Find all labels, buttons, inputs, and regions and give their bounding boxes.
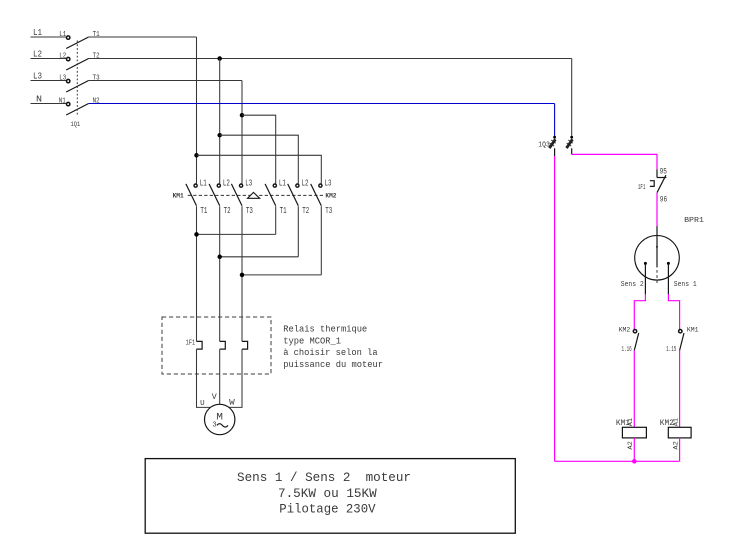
wire KM2 T3 down	[320, 206, 322, 275]
svg-text:KM1: KM1	[687, 326, 699, 333]
svg-text:W: W	[229, 400, 235, 408]
wire KM1 T1 down	[196, 206, 198, 341]
svg-text:L3: L3	[245, 178, 252, 188]
breaker 1Q1 pole 4 blade	[66, 104, 88, 116]
coil KM1	[622, 427, 646, 438]
svg-text:L1: L1	[200, 178, 207, 188]
wire coil KM2 to bus (magenta)	[679, 438, 681, 461]
annotation relais thermique	[283, 324, 383, 370]
KM2 contact pole L2	[288, 178, 310, 215]
wire control phase (magenta)	[572, 154, 657, 169]
svg-text:KM2: KM2	[325, 192, 336, 199]
breaker 1Q1 pole 1 blade	[66, 37, 88, 49]
thermal contact 1F1 95-96	[650, 169, 667, 192]
thermal relay 1F1 dashed box	[162, 317, 271, 374]
svg-text:A2: A2	[627, 441, 634, 449]
svg-text:L2: L2	[223, 178, 230, 188]
wire L3 input	[31, 80, 67, 82]
svg-text:1Q3: 1Q3	[538, 141, 550, 149]
svg-text:Sens 1: Sens 1	[674, 281, 697, 289]
wire Sens 1 branch	[668, 263, 679, 329]
svg-text:L2: L2	[59, 52, 66, 60]
svg-text:1F1: 1F1	[638, 184, 646, 192]
junction T2 branch	[217, 56, 222, 61]
svg-text:A1: A1	[672, 418, 679, 426]
svg-text:1.16: 1.16	[622, 346, 632, 354]
KM2 contact pole L3	[311, 178, 333, 215]
svg-text:L1: L1	[279, 178, 286, 188]
breaker 1Q1 pole 3 blade	[66, 81, 88, 93]
breaker 1Q3 pole phase blade (hatched)	[567, 139, 573, 148]
KM1 contact pole L2	[209, 178, 231, 215]
svg-text:T3: T3	[325, 206, 332, 216]
svg-text:U: U	[200, 400, 205, 408]
svg-text:N2: N2	[93, 97, 100, 105]
breaker 1Q1 pole 4 terminal N1	[59, 97, 70, 105]
KM2 contact pole L1	[265, 178, 287, 215]
breaker 1Q1 pole 2 blade	[66, 59, 88, 71]
wire T1 drop	[196, 37, 198, 184]
wire join T1 outputs	[197, 233, 276, 235]
junction T2 join	[217, 255, 222, 260]
motor M1 circle	[205, 404, 235, 434]
svg-text:L1: L1	[33, 27, 42, 38]
wire join T3 outputs	[242, 274, 321, 276]
svg-text:96: 96	[660, 195, 667, 205]
wire T3 drop	[241, 81, 243, 184]
wire KM1 T3 down	[241, 206, 243, 341]
selector contact Sens 2	[644, 262, 647, 265]
svg-text:T2: T2	[302, 206, 309, 216]
wire KM1 T2 down	[219, 206, 221, 341]
svg-text:type MCOR_1: type MCOR_1	[283, 335, 341, 346]
selector contact Sens 1	[667, 262, 670, 265]
thermal element phase 3	[242, 341, 248, 349]
svg-text:M: M	[216, 413, 223, 424]
svg-text:A2: A2	[672, 441, 679, 449]
aux contact KM2 (interlock)	[633, 330, 638, 351]
wire neutral below 1Q3	[554, 148, 556, 156]
wire T2 control drop	[571, 59, 573, 136]
junction T1 branch	[194, 153, 199, 158]
breaker 1Q3 pole phase terminal	[570, 136, 573, 139]
svg-text:L3: L3	[325, 178, 332, 188]
svg-text:Pilotage 230V: Pilotage 230V	[279, 501, 375, 516]
breaker 1Q1 pole 3 terminal L3	[59, 74, 70, 82]
svg-text:T1: T1	[93, 31, 100, 39]
wire L2 input	[31, 58, 67, 60]
svg-text:BPR1: BPR1	[684, 217, 704, 225]
motor tilde	[217, 424, 228, 427]
svg-text:KM1: KM1	[173, 192, 184, 199]
svg-text:N: N	[36, 93, 42, 104]
junction T2 branch 2	[217, 133, 222, 138]
wire T3 branch to KM2 L1	[242, 115, 276, 183]
wire motor W	[229, 349, 242, 407]
wire motor U	[197, 349, 211, 407]
svg-text:L3: L3	[59, 74, 66, 82]
svg-text:Relais thermique: Relais thermique	[283, 324, 367, 335]
svg-text:Sens 2: Sens 2	[621, 281, 644, 289]
title box	[145, 459, 515, 534]
svg-text:T1: T1	[280, 206, 287, 216]
svg-text:N1: N1	[59, 97, 66, 105]
KM1 contact pole L1	[186, 178, 208, 215]
svg-text:Sens 1 / Sens 2 moteur: Sens 1 / Sens 2 moteur	[237, 470, 411, 485]
junction T3 branch	[240, 113, 245, 118]
wire N2 control drop (blue)	[554, 104, 556, 136]
wire KM1 aux to coil KM2 (magenta)	[679, 350, 681, 427]
svg-text:L2: L2	[302, 178, 309, 188]
breaker 1Q1 pole 2 terminal L2	[59, 52, 70, 60]
breaker 1Q1 pole 1 terminal L1	[59, 31, 70, 39]
svg-text:V: V	[212, 392, 218, 402]
KM1 contact pole L3	[231, 178, 253, 215]
svg-text:1.15: 1.15	[666, 346, 676, 354]
wire N input	[31, 103, 67, 105]
wire T1 branch to KM2 L3	[197, 155, 322, 183]
wire T1 horizontal	[89, 36, 197, 38]
wire join T2 outputs	[220, 256, 299, 258]
wire neutral bus (magenta)	[555, 460, 680, 462]
thermal element phase 1	[197, 341, 203, 349]
svg-text:A1: A1	[627, 418, 634, 426]
svg-text:7.5KW ou 15KW: 7.5KW ou 15KW	[278, 486, 377, 501]
breaker 1Q3 pole N terminal	[553, 136, 556, 139]
wire KM2 T2 down	[297, 206, 299, 257]
selector switch BPR1 circle	[635, 235, 680, 280]
wire KM2 T1 down	[275, 206, 277, 234]
junction T3 join	[240, 273, 245, 278]
wire T2 horizontal	[89, 58, 572, 60]
wire KM2 aux to coil KM1 (magenta)	[633, 350, 635, 427]
svg-text:T3: T3	[246, 206, 253, 216]
wire control neutral (magenta)	[554, 156, 556, 461]
wire L1 input	[31, 36, 67, 38]
wire Sens 2 branch	[634, 263, 645, 329]
svg-text:T2: T2	[93, 52, 100, 60]
junction bus (magenta)	[632, 459, 637, 464]
svg-text:1Q1: 1Q1	[71, 121, 81, 129]
svg-text:3: 3	[212, 421, 216, 429]
wire 96 to selector (magenta)	[656, 193, 658, 226]
wire T3 horizontal	[89, 80, 242, 82]
svg-text:L3: L3	[33, 70, 42, 81]
aux contact KM1 (interlock)	[679, 330, 684, 351]
coil KM2	[668, 427, 691, 438]
wire N2 horizontal (blue)	[89, 103, 555, 105]
thermal element phase 2	[220, 341, 226, 349]
wire T2 drop	[219, 59, 221, 184]
breaker 1Q1 mechanical link (dashed)	[76, 41, 78, 117]
breaker 1Q3 pole N blade (hatched)	[549, 139, 555, 148]
svg-text:T1: T1	[200, 206, 207, 216]
svg-text:1F1: 1F1	[186, 340, 196, 348]
svg-text:T3: T3	[93, 74, 100, 82]
svg-text:L2: L2	[33, 48, 42, 59]
wire T2 branch to KM2 L2	[220, 135, 299, 183]
selector handle	[656, 226, 658, 283]
contactor mechanical link dashed	[188, 194, 324, 196]
svg-text:puissance du moteur: puissance du moteur	[283, 359, 383, 370]
wire coil KM1 to bus (magenta)	[633, 438, 635, 461]
junction T1 join	[194, 232, 199, 237]
wire phase below 1Q3	[571, 148, 573, 154]
wire motor V	[219, 349, 221, 404]
svg-text:L1: L1	[59, 31, 66, 39]
svg-text:KM2: KM2	[619, 326, 631, 333]
svg-text:T2: T2	[224, 206, 231, 216]
delta symbol	[248, 192, 260, 198]
svg-text:95: 95	[660, 166, 667, 176]
svg-text:à choisir selon la: à choisir selon la	[283, 347, 378, 358]
